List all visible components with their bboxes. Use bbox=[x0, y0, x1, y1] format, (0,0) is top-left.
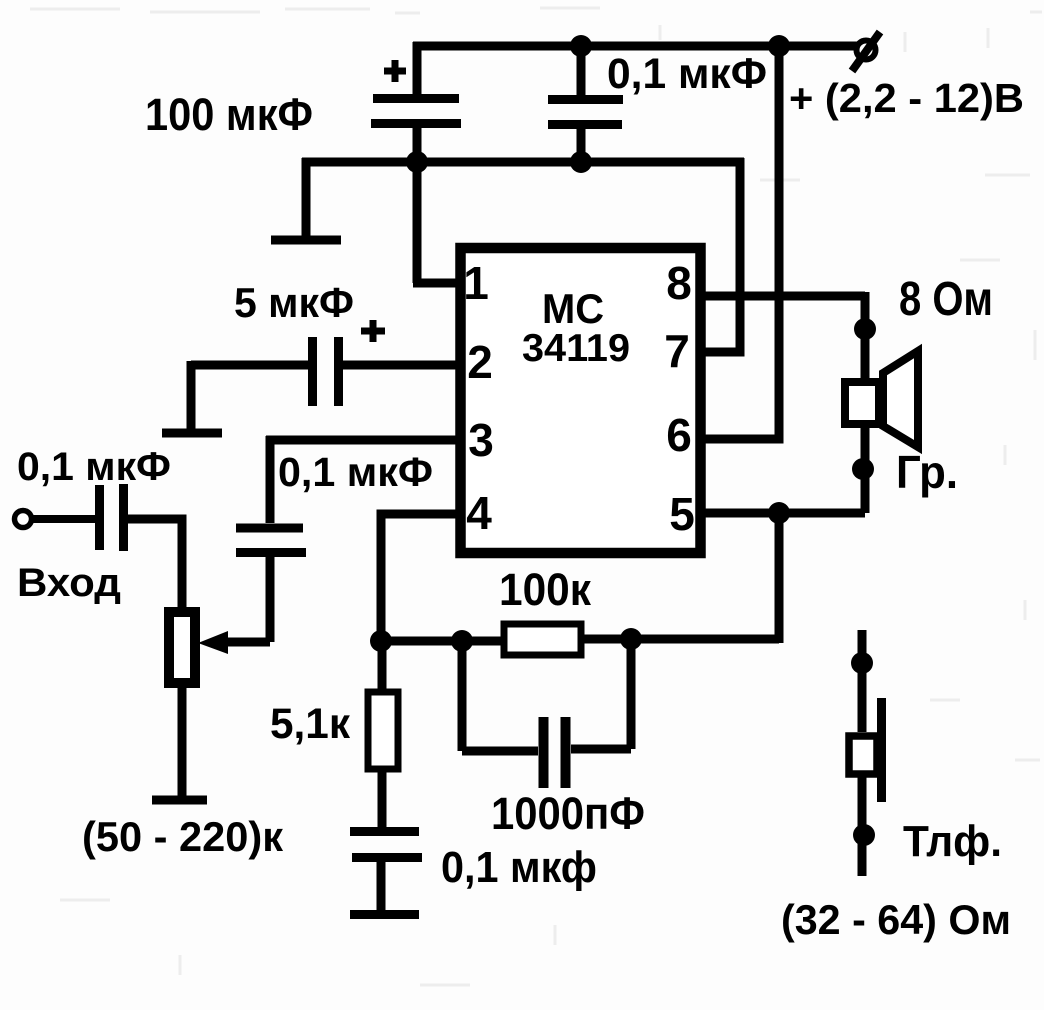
junction dot bbox=[451, 630, 473, 652]
wire: pin 6 bbox=[700, 435, 784, 444]
capacitor 0,1 мкФ (top) bbox=[548, 42, 623, 166]
headphone Тлф. bbox=[849, 698, 882, 802]
junction dot bbox=[620, 628, 642, 650]
label 1000пФ bbox=[491, 788, 645, 839]
svg-text:8: 8 bbox=[666, 257, 692, 309]
ground (5 мкФ) bbox=[162, 361, 222, 433]
label 100 мкФ bbox=[145, 89, 313, 140]
junction dot bbox=[852, 458, 874, 480]
svg-text:5 мкФ: 5 мкФ bbox=[234, 279, 354, 326]
svg-text:1: 1 bbox=[463, 257, 489, 309]
wire: pin 7 vertical bbox=[736, 158, 745, 352]
capacitor 5 мкФ (polarized) bbox=[313, 320, 386, 406]
svg-text:3: 3 bbox=[468, 414, 494, 466]
label 0,1 мкФ (wiper coupling) bbox=[278, 449, 433, 495]
junction dot bbox=[768, 502, 790, 524]
svg-text:(32 - 64) Ом: (32 - 64) Ом bbox=[781, 896, 1011, 943]
label 8 Ом bbox=[899, 273, 993, 326]
label Гр. bbox=[896, 446, 958, 498]
svg-text:0,1 мкФ: 0,1 мкФ bbox=[17, 445, 171, 489]
wire: pin 7 bbox=[700, 348, 745, 357]
pin 8 label bbox=[666, 257, 692, 309]
label (50 - 220)к bbox=[82, 813, 284, 860]
headphone Тлф. wire top bbox=[858, 630, 867, 732]
pin 4 label bbox=[466, 487, 492, 539]
resistor 100к bbox=[504, 624, 581, 655]
svg-text:+ (2,2 - 12)В: + (2,2 - 12)В bbox=[789, 75, 1024, 121]
wire: pin 4 bbox=[381, 514, 461, 641]
junction dot bbox=[853, 824, 875, 846]
speaker Гр. bbox=[845, 351, 918, 447]
wire: pin 5 bbox=[700, 509, 865, 518]
svg-text:100 мкФ: 100 мкФ bbox=[145, 89, 313, 140]
junction dot bbox=[768, 35, 790, 57]
label 5,1к bbox=[270, 700, 350, 748]
label 0,1 мкФ (top) bbox=[607, 50, 767, 98]
svg-text:(50 - 220)к: (50 - 220)к bbox=[82, 813, 284, 860]
svg-text:2: 2 bbox=[467, 336, 493, 388]
label (32 - 64) Ом bbox=[781, 896, 1011, 943]
svg-text:0,1 мкф: 0,1 мкф bbox=[441, 843, 597, 892]
svg-text:Тлф.: Тлф. bbox=[903, 817, 1002, 866]
op-amp U1 MC34119 bbox=[461, 248, 701, 553]
wire: ground rail y162 bbox=[302, 158, 744, 167]
ground (pot) bbox=[152, 796, 207, 805]
wire: pot to ground bbox=[178, 684, 187, 796]
capacitor 0,1 мкф (bottom) bbox=[350, 832, 422, 913]
pin 6 label bbox=[666, 409, 692, 461]
pin 2 label bbox=[467, 336, 493, 388]
capacitor 1000пФ bbox=[462, 639, 631, 788]
capacitor 0,1 мкФ (input) bbox=[100, 484, 124, 551]
wiper arrowhead bbox=[198, 631, 228, 654]
capacitor 0,1 мкФ (wiper coupling) bbox=[236, 528, 306, 553]
wire: pin 2 left bbox=[191, 361, 308, 370]
wire: speaker to pin 5 bbox=[861, 428, 870, 513]
label 0,1 мкф bbox=[441, 843, 597, 892]
svg-text:4: 4 bbox=[466, 487, 492, 539]
headphone Тлф. wire bottom bbox=[858, 777, 867, 876]
pin 1 label bbox=[463, 257, 489, 309]
wire: input cap to potentiometer bbox=[127, 519, 182, 610]
ground (top left) bbox=[271, 158, 341, 240]
label 34119 bbox=[522, 327, 630, 370]
pin 7 label bbox=[664, 325, 690, 377]
input terminal bbox=[15, 511, 32, 528]
ground (bottom cap) bbox=[350, 910, 419, 919]
label 5 мкФ bbox=[234, 279, 354, 326]
svg-text:7: 7 bbox=[664, 325, 690, 377]
wire: input bbox=[32, 515, 96, 523]
label 0,1 мкФ (input) bbox=[17, 445, 171, 489]
wire: +V top rail bbox=[413, 42, 858, 51]
capacitor 100 мкФ (polarized) bbox=[371, 42, 461, 166]
wire: pin 3 bbox=[266, 436, 461, 523]
label Тлф. bbox=[903, 817, 1002, 866]
wire: feedback rail right to pin 5 bbox=[581, 513, 779, 643]
svg-text:34119: 34119 bbox=[522, 327, 630, 370]
terminal: +V supply input bbox=[852, 32, 880, 71]
junction dot bbox=[406, 151, 428, 173]
junction dot bbox=[570, 35, 592, 57]
resistor 5,1к bbox=[368, 641, 398, 831]
wire: pin 2 right bbox=[343, 361, 461, 370]
svg-text:1000пФ: 1000пФ bbox=[491, 788, 645, 839]
svg-text:100к: 100к bbox=[499, 564, 591, 615]
wire: cap to wiper bbox=[218, 557, 270, 642]
wire: pin 8 to speaker bbox=[700, 292, 865, 378]
svg-text:Гр.: Гр. bbox=[896, 446, 958, 498]
junction dot bbox=[370, 630, 392, 652]
pin 3 label bbox=[468, 414, 494, 466]
junction dot bbox=[570, 151, 592, 173]
junction dot bbox=[854, 318, 876, 340]
pin 5 label bbox=[669, 488, 695, 540]
wire: feedback rail left bbox=[381, 637, 503, 646]
svg-text:МС: МС bbox=[542, 285, 604, 332]
junction dot bbox=[851, 652, 873, 674]
svg-text:5,1к: 5,1к bbox=[270, 700, 350, 748]
label + (2,2 - 12)В bbox=[789, 75, 1024, 121]
wire: Vcc vertical to pin 6 bbox=[775, 46, 784, 439]
wire: pin 1 bbox=[413, 162, 461, 283]
label МС bbox=[542, 285, 604, 332]
label Вход bbox=[17, 561, 121, 605]
potentiometer (50 - 220)к bbox=[169, 612, 195, 683]
label 100к bbox=[499, 564, 591, 615]
svg-text:5: 5 bbox=[669, 488, 695, 540]
svg-text:Вход: Вход bbox=[17, 561, 121, 605]
svg-text:0,1 мкФ: 0,1 мкФ bbox=[607, 50, 767, 98]
svg-text:6: 6 bbox=[666, 409, 692, 461]
svg-text:0,1 мкФ: 0,1 мкФ bbox=[278, 449, 433, 495]
svg-text:8 Ом: 8 Ом bbox=[899, 273, 993, 326]
